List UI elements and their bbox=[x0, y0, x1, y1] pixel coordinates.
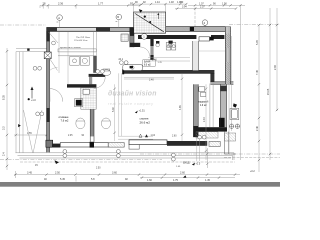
dash line bottom long bbox=[140, 153, 280, 155]
svg-text:2.40: 2.40 bbox=[256, 126, 259, 131]
top-right exterior wall band bbox=[166, 27, 231, 32]
svg-text:26.6 м2: 26.6 м2 bbox=[140, 121, 151, 125]
hall wall vertical down bbox=[90, 109, 94, 136]
fireplace hatched block bbox=[81, 88, 96, 110]
svg-text:1.44: 1.44 bbox=[155, 1, 160, 4]
svg-text:4.9 м2: 4.9 м2 bbox=[200, 105, 207, 107]
porch black dot bbox=[27, 48, 29, 50]
svg-text:170х140 10см: 170х140 10см bbox=[74, 40, 88, 42]
svg-text:1.04: 1.04 bbox=[151, 135, 156, 137]
main middle wall D bbox=[124, 70, 214, 73]
thin rail lines right bbox=[229, 27, 232, 154]
stair diagonal arrow bbox=[135, 14, 164, 32]
black diamond on steps bbox=[18, 124, 21, 127]
sink taps near stairs wall bbox=[156, 41, 173, 44]
wing west wall bbox=[193, 84, 198, 137]
svg-text:2.05: 2.05 bbox=[68, 135, 73, 137]
stub wall bbox=[130, 43, 140, 47]
svg-text:+1.51: +1.51 bbox=[139, 110, 146, 113]
bottom gray strip bbox=[0, 182, 280, 187]
svg-text:1.98: 1.98 bbox=[177, 1, 182, 4]
terrace step lines bottom bbox=[16, 153, 235, 160]
svg-text:real estate company: real estate company bbox=[108, 102, 154, 106]
SE terrace structure bbox=[225, 132, 236, 154]
kitchen counter bbox=[58, 49, 96, 52]
south wall composite bbox=[52, 144, 60, 148]
terrace door lines below wing bbox=[197, 138, 200, 161]
big room furniture ellipses bbox=[76, 118, 111, 129]
entry level mark bottom right bbox=[192, 163, 195, 166]
svg-text:дизайн vision: дизайн vision bbox=[108, 90, 157, 98]
black level arrow bottom bbox=[183, 175, 186, 177]
top dimension line 2 over stairs bbox=[130, 4, 187, 12]
toilet bbox=[102, 70, 111, 76]
grid bubble top-left bbox=[57, 15, 63, 21]
wing top wall bbox=[210, 82, 233, 85]
svg-text:2.40: 2.40 bbox=[149, 78, 154, 81]
bath side verticals bbox=[119, 73, 122, 136]
wall D right stub down bbox=[210, 73, 214, 83]
svg-text:2.50: 2.50 bbox=[96, 168, 101, 170]
top wall A (left part) bbox=[47, 27, 134, 31]
svg-text:1.46: 1.46 bbox=[152, 58, 157, 61]
room label bedroom bbox=[140, 117, 151, 124]
svg-text:1.60: 1.60 bbox=[147, 179, 152, 182]
svg-text:7,6 м2: 7,6 м2 bbox=[61, 119, 69, 123]
svg-text:2.60: 2.60 bbox=[180, 171, 185, 174]
svg-text:5.05: 5.05 bbox=[256, 40, 259, 45]
wing fixtures bbox=[199, 87, 239, 120]
door arc left room bbox=[50, 59, 58, 71]
bottom dimension line bbox=[14, 171, 240, 178]
short dim vertical right of entrance bbox=[206, 148, 208, 168]
svg-text:+1.0: +1.0 bbox=[31, 99, 36, 102]
room label wardrobe bbox=[199, 102, 209, 107]
grid bubble top-mid bbox=[116, 14, 122, 20]
room label hall bbox=[59, 116, 70, 123]
level mark +1.51 bbox=[135, 111, 138, 114]
svg-text:1.55: 1.55 bbox=[27, 132, 32, 135]
left width dim line bbox=[14, 134, 47, 136]
right exterior wall bbox=[225, 27, 230, 85]
svg-text:гардероб: гардероб bbox=[199, 102, 209, 104]
stair number bubble bbox=[141, 34, 147, 40]
entry door arc bbox=[50, 89, 63, 102]
svg-text:8.0 м2: 8.0 м2 bbox=[144, 65, 151, 67]
svg-text:7.45: 7.45 bbox=[256, 70, 259, 75]
tub bbox=[123, 65, 143, 71]
door arc hall bbox=[94, 77, 106, 89]
interior faint dimension chains bbox=[59, 32, 206, 161]
stair block bbox=[134, 12, 166, 33]
svg-text:+0.2: +0.2 bbox=[250, 170, 255, 173]
black arrow bottom-left corner bbox=[55, 160, 60, 164]
svg-text:2.36: 2.36 bbox=[58, 1, 64, 5]
wall under stairs (inner thick) bbox=[138, 35, 196, 39]
svg-text:1.75: 1.75 bbox=[173, 179, 178, 182]
symbols circle pairs scattered bbox=[36, 112, 206, 161]
entrance arrow bbox=[31, 89, 33, 99]
wing east wall bbox=[220, 84, 226, 127]
window X-box on left wall bbox=[44, 52, 51, 59]
top-right room inner wall vertical bbox=[193, 41, 199, 70]
svg-text:1.77: 1.77 bbox=[98, 1, 104, 5]
wing bottom wall bbox=[196, 127, 227, 131]
hall circles (symbols pair) bbox=[96, 70, 105, 74]
bath east wall bbox=[150, 39, 153, 61]
hall wall horizontal bbox=[67, 84, 96, 87]
svg-text:2.40: 2.40 bbox=[203, 117, 206, 122]
chimney hatch box bbox=[121, 34, 128, 41]
svg-text:отиване: отиване bbox=[59, 116, 70, 119]
right vertical dimension lines bbox=[259, 8, 277, 172]
left porch step lines bbox=[16, 49, 47, 153]
top dimension line 3 right bbox=[175, 5, 245, 160]
svg-text:15.05: 15.05 bbox=[267, 88, 270, 95]
svg-text:1.48: 1.48 bbox=[169, 1, 174, 4]
svg-text:ос: ос bbox=[57, 22, 59, 24]
bath circles symbols bbox=[120, 61, 129, 65]
svg-text:2.4: 2.4 bbox=[3, 152, 6, 156]
vertical grid dash at x195 bbox=[194, 8, 196, 28]
left exterior wall bbox=[47, 27, 50, 152]
top dimension line 1 bbox=[40, 5, 140, 8]
wall left of stairs bbox=[130, 27, 134, 47]
svg-text:8.35: 8.35 bbox=[3, 95, 6, 100]
svg-text:4.65: 4.65 bbox=[179, 105, 182, 110]
wing middle divider bbox=[210, 84, 213, 128]
svg-text:3.3: 3.3 bbox=[3, 126, 6, 130]
bath west wall (kitchen divider) bbox=[94, 32, 97, 73]
svg-text:A: A bbox=[58, 16, 60, 20]
svg-text:2.60: 2.60 bbox=[172, 135, 177, 137]
top-right room fixtures bbox=[166, 42, 176, 50]
porch symbol circles bbox=[33, 66, 41, 70]
bath label boxed bbox=[143, 60, 155, 66]
wall C bath/hall bbox=[89, 74, 106, 77]
left vertical dimension line bbox=[6, 48, 8, 170]
svg-text:3.45: 3.45 bbox=[27, 172, 32, 175]
svg-text:кухненски и столова: кухненски и столова bbox=[60, 47, 81, 49]
svg-text:ВХОД: ВХОД bbox=[183, 161, 190, 164]
svg-text:3.94: 3.94 bbox=[182, 6, 187, 9]
fireplace black column bbox=[76, 100, 82, 106]
wing sill hatch bbox=[196, 132, 218, 138]
svg-text:5.8: 5.8 bbox=[91, 178, 95, 181]
svg-text:3.60: 3.60 bbox=[112, 172, 117, 175]
grid bubble top right bbox=[202, 20, 208, 26]
svg-text:1.45: 1.45 bbox=[205, 179, 210, 182]
dash-dot centerline top bbox=[0, 8, 280, 163]
svg-text:5.02: 5.02 bbox=[112, 107, 115, 112]
svg-text:Б: Б bbox=[117, 15, 119, 19]
svg-text:+1.5: +1.5 bbox=[196, 162, 201, 165]
svg-text:1.90: 1.90 bbox=[222, 2, 227, 5]
svg-text:2.92: 2.92 bbox=[274, 65, 277, 70]
black symbol wing top bbox=[233, 103, 237, 107]
canopy V lines bbox=[24, 110, 43, 153]
svg-text:24.1: 24.1 bbox=[119, 59, 124, 61]
wardrobe band above south wall bbox=[118, 136, 153, 139]
svg-text:2.50: 2.50 bbox=[55, 172, 60, 175]
svg-text:75а 70Л 10см: 75а 70Л 10см bbox=[76, 37, 90, 39]
window box lower left wall bbox=[46, 140, 53, 147]
circle pair symbols wing bbox=[229, 124, 239, 128]
svg-text:2.07: 2.07 bbox=[200, 6, 205, 9]
svg-text:5.45: 5.45 bbox=[60, 178, 65, 181]
svg-text:ос: ос bbox=[116, 21, 118, 23]
door arc from stub bbox=[140, 47, 150, 57]
